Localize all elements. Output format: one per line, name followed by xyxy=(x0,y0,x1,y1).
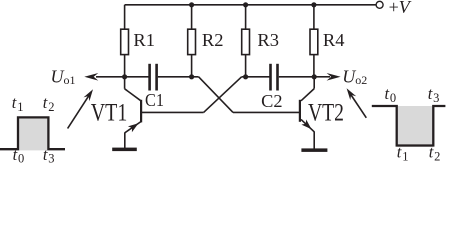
wire VT2 base horizontal xyxy=(233,111,300,113)
waveform Uo2 pulse (right) xyxy=(372,106,446,147)
wire cross-coupling R2 node to VT2 base (diagonal) xyxy=(199,77,233,113)
svg-text:R2: R2 xyxy=(202,30,224,50)
svg-text:t2: t2 xyxy=(43,93,55,114)
wire +V supply rail xyxy=(125,4,376,6)
node R3 bottom junction xyxy=(243,74,248,79)
wire output Uo1 arrow xyxy=(84,73,124,81)
resistor R2 xyxy=(188,5,224,77)
svg-text:t1: t1 xyxy=(12,93,24,114)
capacitor C2 xyxy=(261,64,282,111)
node rail-R4 junction xyxy=(311,2,316,7)
resistor R3 xyxy=(242,5,279,77)
ground VT2 xyxy=(301,148,327,152)
svg-text:R1: R1 xyxy=(133,30,155,50)
node VT2 collector junction xyxy=(312,74,317,79)
wire C2 to VT2 collector node xyxy=(279,76,314,78)
svg-text:t2: t2 xyxy=(429,143,441,164)
resistor R1 xyxy=(121,5,155,77)
svg-text:C1: C1 xyxy=(145,90,164,110)
wire annotation arrow left (waveform to Uo1) xyxy=(68,89,93,128)
wire VT1 collector node to C1 xyxy=(125,76,149,78)
svg-text:R3: R3 xyxy=(257,30,279,50)
svg-text:VT1: VT1 xyxy=(91,97,128,126)
resistor R4 xyxy=(310,5,345,77)
svg-text:C2: C2 xyxy=(261,91,282,111)
wire output Uo2 arrow xyxy=(314,73,340,81)
node rail-R3 junction xyxy=(243,2,248,7)
svg-text:R4: R4 xyxy=(323,30,345,50)
transistor VT1 xyxy=(125,77,143,148)
ground VT1 xyxy=(112,148,137,152)
waveform Uo1 pulse (left) xyxy=(0,117,65,150)
svg-text:t0: t0 xyxy=(385,84,397,105)
wire R3 node to C2 xyxy=(242,76,270,78)
node VT1 collector junction xyxy=(122,74,127,79)
svg-text:Uo2: Uo2 xyxy=(342,66,367,87)
svg-text:VT2: VT2 xyxy=(308,97,344,126)
node R2 bottom junction xyxy=(189,74,194,79)
wire cross-coupling VT1 base to R3 node (diagonal) xyxy=(204,77,242,113)
node rail-R2 junction xyxy=(189,2,194,7)
capacitor C1 xyxy=(145,64,164,110)
wire annotation arrow right (waveform to Uo2) xyxy=(347,88,367,118)
svg-text:+V: +V xyxy=(389,0,412,17)
wire VT1 base horizontal xyxy=(141,111,203,113)
terminal +V xyxy=(376,1,383,8)
wire C1 to R2 bottom node xyxy=(158,76,199,78)
svg-text:t3: t3 xyxy=(428,84,440,105)
svg-text:Uo1: Uo1 xyxy=(51,66,76,87)
transistor VT2 xyxy=(299,77,314,149)
